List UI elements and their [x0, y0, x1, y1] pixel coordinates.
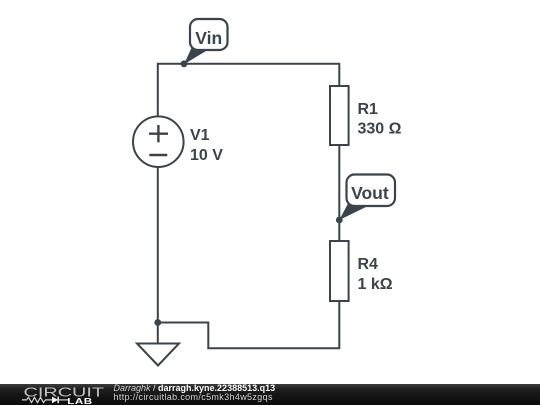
svg-text:330 Ω: 330 Ω: [358, 121, 402, 138]
svg-text:10 V: 10 V: [190, 147, 223, 164]
ground: [137, 344, 179, 366]
wire R1 bottom to R4 top: [338, 145, 340, 241]
footer bar: [0, 384, 540, 405]
voltage source V1: [133, 116, 223, 167]
svg-text:1 kΩ: 1 kΩ: [358, 276, 393, 293]
node Vout flag: [336, 175, 395, 224]
svg-text:V1: V1: [190, 127, 210, 144]
svg-text:R1: R1: [358, 101, 379, 118]
svg-text:R4: R4: [358, 256, 379, 273]
svg-text:Vin: Vin: [195, 28, 222, 48]
node Vin flag: [181, 19, 228, 67]
wire ground stub: [157, 323, 159, 345]
resistor R1: [330, 86, 402, 145]
wire V1 bottom to ground node: [157, 167, 159, 323]
junction dot Vout: [336, 217, 343, 224]
CircuitLab logo: [0, 384, 110, 405]
footer text: [114, 384, 276, 393]
resistor R4: [330, 241, 393, 301]
junction dot ground node: [154, 319, 161, 326]
svg-text:LAB: LAB: [67, 397, 93, 405]
wire Vin net: V1 top to R1 top: [158, 64, 339, 117]
junction dot Vin: [181, 60, 188, 67]
wire R4 bottom to ground node: [158, 301, 339, 348]
svg-text:Vout: Vout: [351, 183, 389, 203]
